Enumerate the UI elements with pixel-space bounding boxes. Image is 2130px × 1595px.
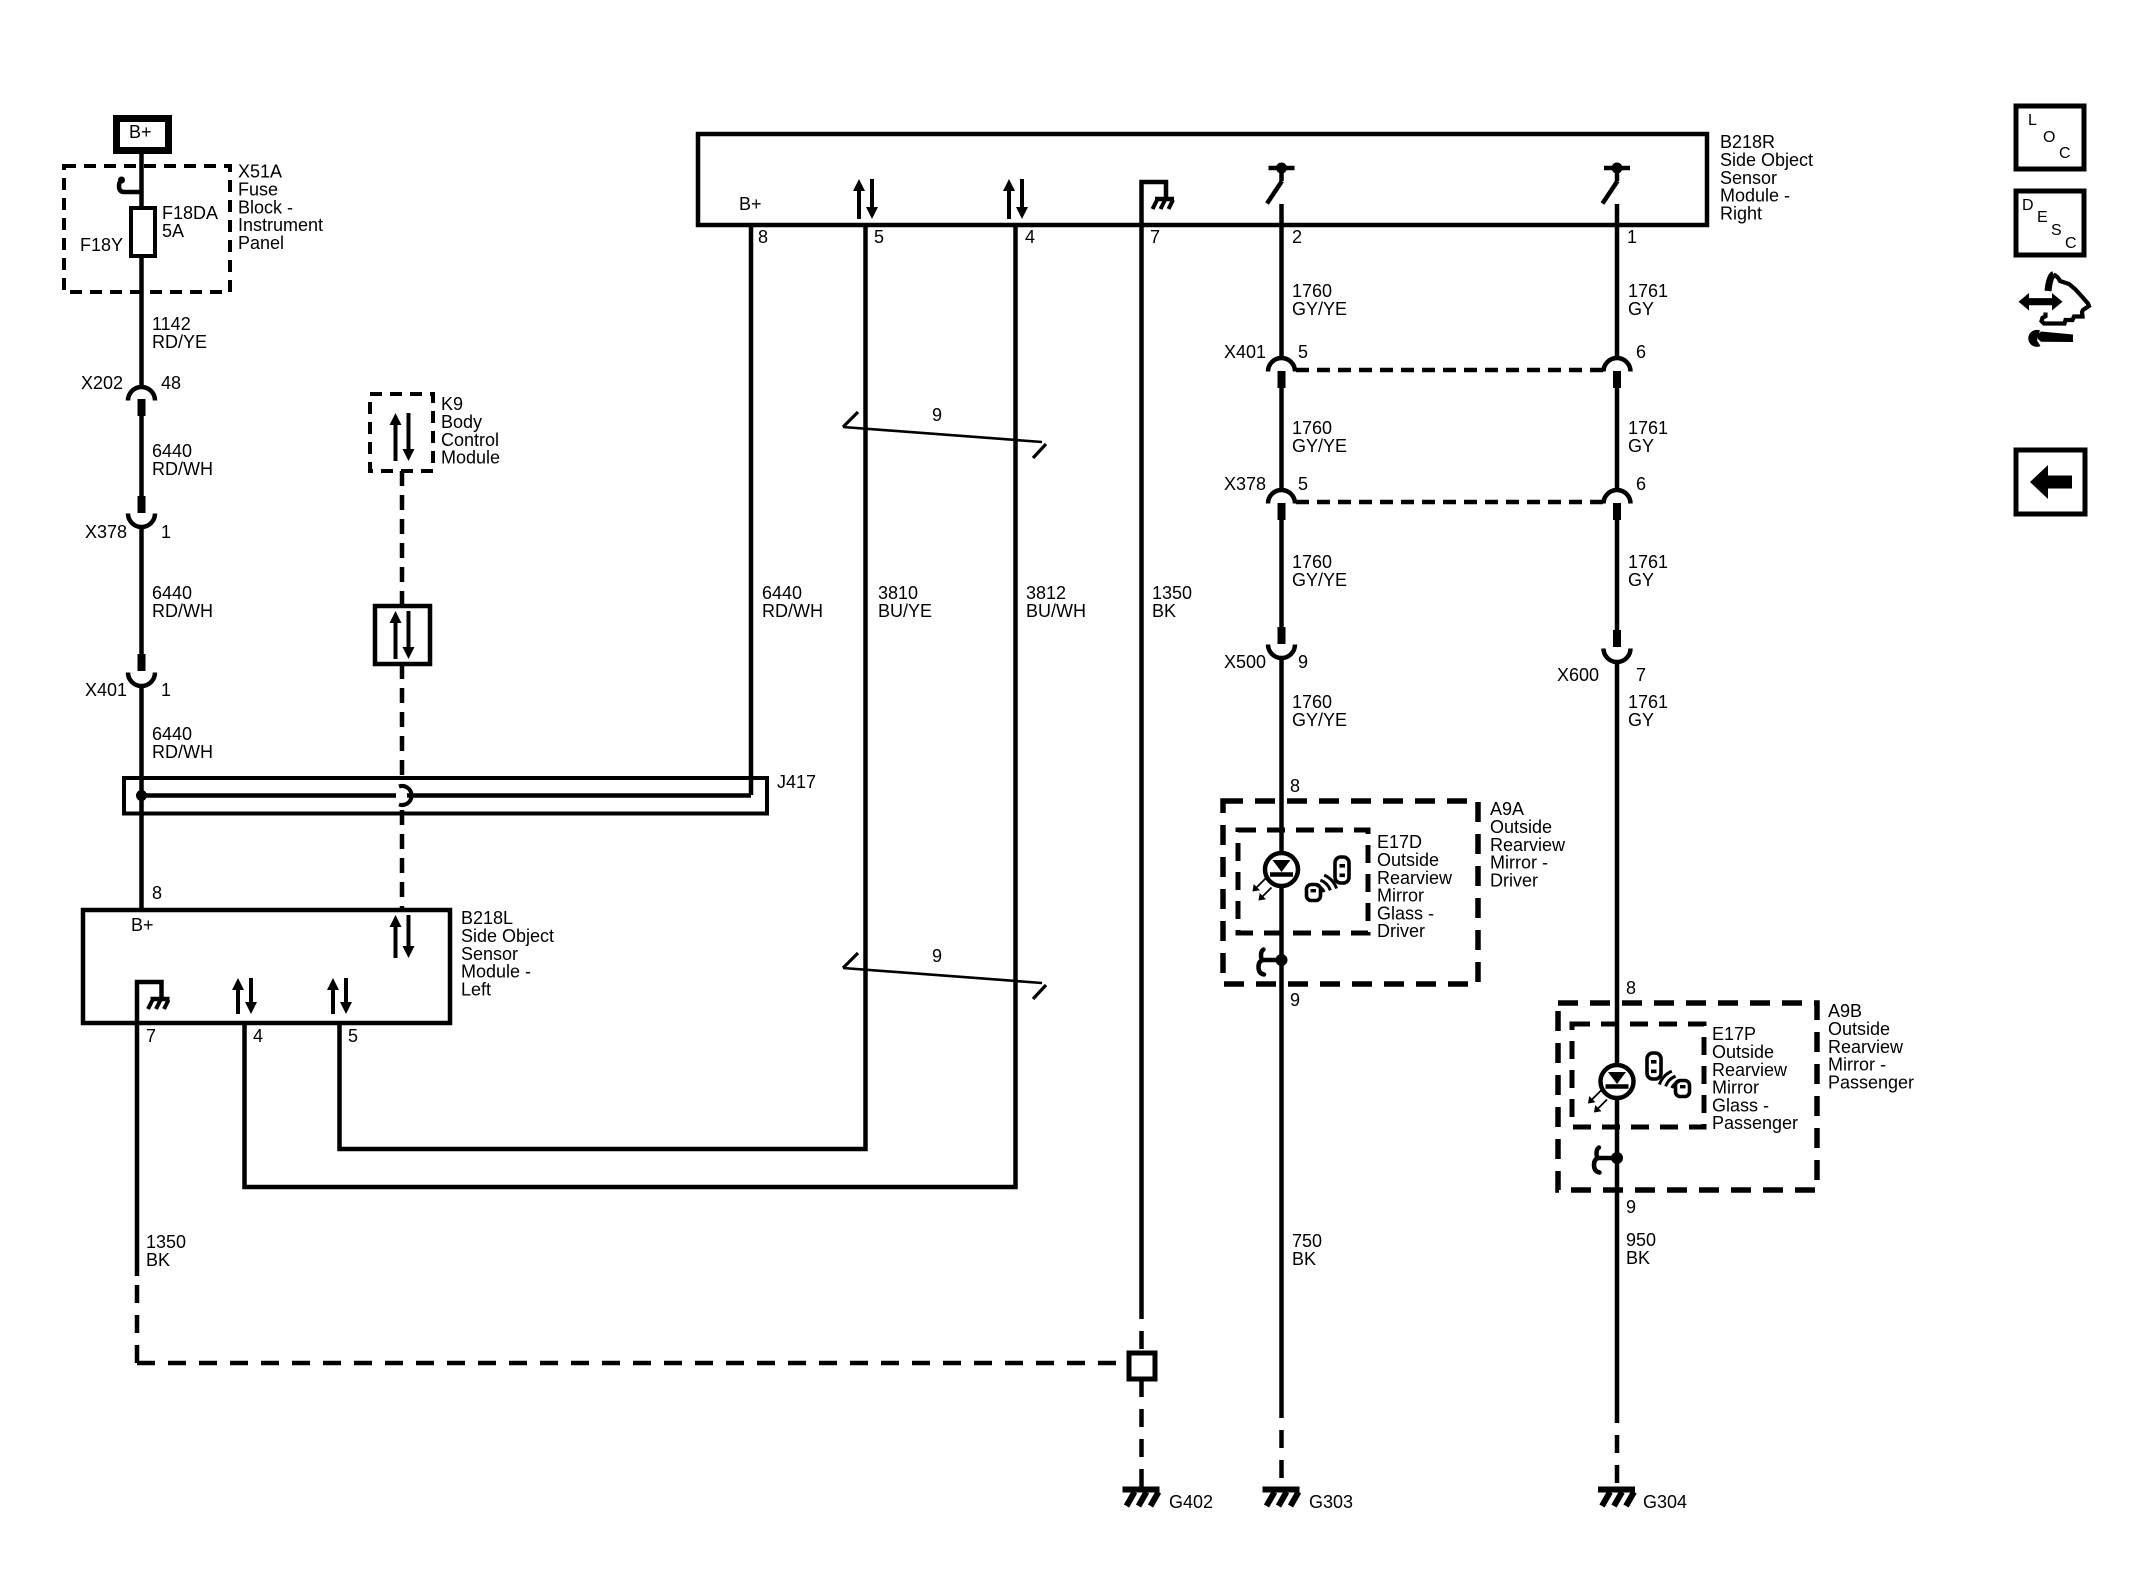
svg-text:E: E <box>2037 209 2048 226</box>
svg-text:Panel: Panel <box>238 233 284 253</box>
connector X202 pin 48 <box>128 387 155 401</box>
svg-text:B+: B+ <box>739 194 762 214</box>
svg-text:9: 9 <box>932 946 942 966</box>
B218R sensor symbol pin 1 <box>1604 166 1630 171</box>
svg-text:X378: X378 <box>85 522 127 542</box>
svg-text:4: 4 <box>1025 227 1035 247</box>
dashed connector link X378 <box>1296 500 1603 505</box>
wire X401 to B218L pin 8 <box>139 686 144 910</box>
B218L internal ground pin 7 <box>137 982 162 1023</box>
svg-text:1: 1 <box>1627 227 1637 247</box>
svg-text:B+: B+ <box>131 915 154 935</box>
wire B+ to fuse block <box>139 154 144 207</box>
DESC nav box <box>2016 191 2084 255</box>
svg-text:GY/YE: GY/YE <box>1292 710 1347 730</box>
K9 Body Control Module dashed box <box>370 394 433 471</box>
svg-text:J417: J417 <box>777 772 816 792</box>
connector X401 pin 6 <box>1604 358 1631 372</box>
svg-text:8: 8 <box>1290 776 1300 796</box>
svg-text:1: 1 <box>161 522 171 542</box>
svg-text:8: 8 <box>758 227 768 247</box>
A9B Outside Rearview Mirror - Passenger dashed box <box>1558 1003 1817 1190</box>
svg-text:Right: Right <box>1720 203 1762 223</box>
LED indicator E17D <box>1265 853 1298 886</box>
wire B218R pin8 to J417 <box>749 225 754 795</box>
dashed serial data wire K9 down <box>400 471 405 606</box>
twisted pair marker top, label 9 <box>843 427 1042 442</box>
svg-text:Driver: Driver <box>1490 870 1538 890</box>
splice square <box>1129 1353 1155 1379</box>
svg-text:9: 9 <box>1626 1197 1636 1217</box>
svg-text:X500: X500 <box>1224 652 1266 672</box>
svg-text:Passenger: Passenger <box>1828 1072 1914 1092</box>
fuse block X51A dashed box <box>64 166 230 292</box>
svg-text:5: 5 <box>874 227 884 247</box>
blind spot icon passenger <box>1647 1053 1690 1097</box>
svg-text:RD/WH: RD/WH <box>152 601 213 621</box>
svg-text:S: S <box>2051 222 2062 239</box>
svg-text:6: 6 <box>1636 474 1646 494</box>
svg-text:GY: GY <box>1628 570 1654 590</box>
junction J417 <box>136 790 147 801</box>
ground G303 <box>1263 1487 1300 1493</box>
svg-text:RD/YE: RD/YE <box>152 332 207 352</box>
module B218R Side Object Sensor Module - Right <box>698 134 1707 225</box>
svg-text:GY: GY <box>1628 710 1654 730</box>
svg-text:C: C <box>2059 145 2071 162</box>
svg-text:GY/YE: GY/YE <box>1292 299 1347 319</box>
svg-text:GY: GY <box>1628 299 1654 319</box>
svg-text:7: 7 <box>1636 665 1646 685</box>
wire B218R pin1 1761 GY <box>1615 204 1620 358</box>
wire B218L pin7 1350 BK <box>135 1023 140 1276</box>
svg-text:9: 9 <box>1298 652 1308 672</box>
svg-text:G304: G304 <box>1643 1492 1687 1512</box>
svg-text:X600: X600 <box>1557 665 1599 685</box>
LED indicator E17P <box>1601 1065 1634 1098</box>
B218R internal ground pin 7 <box>1142 182 1167 225</box>
E17D Outside Rearview Mirror Glass - Driver dashed box <box>1238 830 1368 933</box>
E17P Outside Rearview Mirror Glass - Passenger dashed box <box>1572 1024 1704 1127</box>
back arrow box <box>2016 450 2085 514</box>
svg-text:Left: Left <box>461 979 491 999</box>
svg-text:GY: GY <box>1628 436 1654 456</box>
svg-text:4: 4 <box>253 1026 263 1046</box>
svg-text:X378: X378 <box>1224 474 1266 494</box>
svg-text:BU/YE: BU/YE <box>878 601 932 621</box>
svg-text:8: 8 <box>1626 978 1636 998</box>
B218L serial arrows top <box>394 924 398 958</box>
svg-text:6: 6 <box>1636 342 1646 362</box>
connector X378 pin 6 <box>1604 490 1631 504</box>
svg-text:GY/YE: GY/YE <box>1292 436 1347 456</box>
svg-text:D: D <box>2022 197 2034 214</box>
wire fuse to X202 <box>139 256 144 387</box>
svg-text:8: 8 <box>152 883 162 903</box>
svg-text:48: 48 <box>161 373 181 393</box>
wire through A9A <box>1279 886 1284 984</box>
svg-text:BU/WH: BU/WH <box>1026 601 1086 621</box>
svg-text:BK: BK <box>1152 601 1176 621</box>
module B218L Side Object Sensor Module - Left <box>83 910 450 1023</box>
svg-text:5A: 5A <box>162 221 184 241</box>
A9B ground terminal <box>1611 1152 1623 1164</box>
svg-text:BK: BK <box>146 1250 170 1270</box>
svg-text:F18Y: F18Y <box>80 235 123 255</box>
wire B218R pin7 1350 BK <box>1139 225 1144 1301</box>
svg-text:GY/YE: GY/YE <box>1292 570 1347 590</box>
ground G304 <box>1598 1487 1635 1493</box>
routing icon: double arrow, outline, wrench <box>2027 298 2054 305</box>
B218R arrows pin 5 <box>857 188 861 219</box>
svg-text:RD/WH: RD/WH <box>152 742 213 762</box>
B218R arrows pin 4 <box>1007 188 1011 219</box>
connector X378 pin 1 <box>138 496 146 513</box>
svg-text:Passenger: Passenger <box>1712 1113 1798 1133</box>
A9A Outside Rearview Mirror - Driver dashed box <box>1223 801 1478 984</box>
svg-text:BK: BK <box>1292 1249 1316 1269</box>
svg-text:BK: BK <box>1626 1248 1650 1268</box>
svg-text:9: 9 <box>1290 990 1300 1010</box>
B218L arrows pin 4 <box>236 987 240 1014</box>
svg-text:X401: X401 <box>1224 342 1266 362</box>
svg-text:RD/WH: RD/WH <box>152 459 213 479</box>
wire B218R pin2 1760 GY/YE <box>1279 204 1284 358</box>
splice pack J417 <box>124 778 767 814</box>
svg-text:B+: B+ <box>129 122 152 142</box>
svg-text:L: L <box>2028 112 2037 129</box>
wire B218L pin5 to B218R pin5 <box>340 225 866 1149</box>
svg-text:X202: X202 <box>81 373 123 393</box>
fuse block terminal hook <box>119 180 142 192</box>
twisted pair marker bottom, label 9 <box>843 968 1042 983</box>
A9A ground terminal <box>1276 954 1288 966</box>
blind spot icon driver <box>1307 857 1350 901</box>
dashed 1350 BK to splice square <box>135 1285 140 1363</box>
fuse F18Y / F18DA 5A <box>131 208 155 256</box>
wire X378 to X401 <box>139 527 144 655</box>
wire B218L pin4 to B218R pin4 <box>245 225 1016 1187</box>
K9 serial data arrows <box>394 422 398 461</box>
svg-text:Driver: Driver <box>1377 921 1425 941</box>
serial data inline box <box>375 606 430 664</box>
svg-text:O: O <box>2043 129 2055 146</box>
svg-text:9: 9 <box>932 405 942 425</box>
svg-text:G402: G402 <box>1169 1492 1213 1512</box>
svg-text:X401: X401 <box>85 680 127 700</box>
svg-text:5: 5 <box>1298 474 1308 494</box>
B218R sensor symbol pin 2 <box>1269 166 1295 171</box>
svg-text:5: 5 <box>348 1026 358 1046</box>
svg-text:C: C <box>2065 235 2077 252</box>
dashed serial data wire to B218L <box>400 664 405 782</box>
LOC nav box <box>2016 106 2084 169</box>
connector X500 pin 9 <box>1278 627 1286 644</box>
wire through A9B <box>1615 1098 1620 1190</box>
wire A9A to G303, 750 BK <box>1279 984 1284 1400</box>
svg-text:1: 1 <box>161 680 171 700</box>
svg-text:5: 5 <box>1298 342 1308 362</box>
wire A9B to G304, 950 BK <box>1615 1190 1620 1405</box>
svg-text:7: 7 <box>1150 227 1160 247</box>
svg-text:G303: G303 <box>1309 1492 1353 1512</box>
connector X401 pin 5 <box>1268 358 1295 372</box>
svg-text:7: 7 <box>146 1026 156 1046</box>
connector X600 pin 7 <box>1613 630 1621 647</box>
B+ battery feed box <box>117 119 169 151</box>
svg-text:RD/WH: RD/WH <box>762 601 823 621</box>
dashed connector link X401 <box>1296 368 1603 373</box>
svg-text:Module: Module <box>441 448 500 468</box>
svg-text:2: 2 <box>1292 227 1302 247</box>
ground G402 <box>1123 1487 1160 1493</box>
wire X202 to X378 <box>139 416 144 496</box>
connector X401 pin 1 <box>138 654 146 671</box>
B218L arrows pin 5 <box>331 987 335 1014</box>
connector X378 pin 5 <box>1268 490 1295 504</box>
